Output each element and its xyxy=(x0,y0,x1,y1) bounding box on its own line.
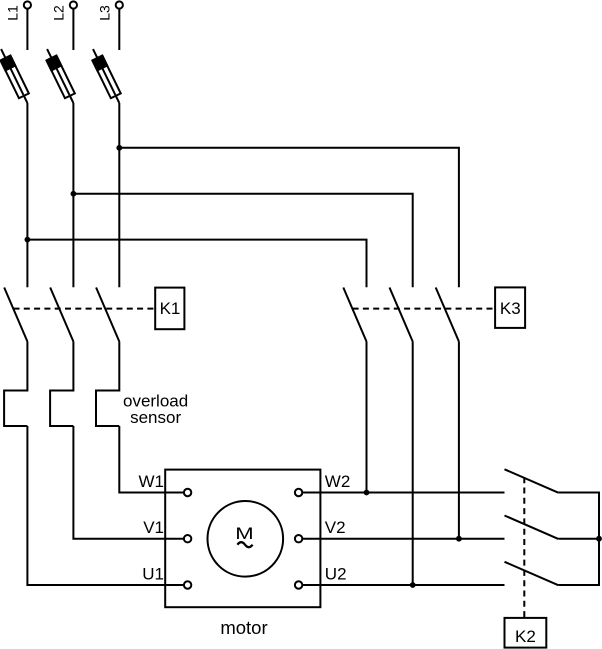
svg-text:K3: K3 xyxy=(500,299,521,318)
svg-text:V2: V2 xyxy=(325,518,346,537)
svg-text:K2: K2 xyxy=(515,627,536,646)
svg-text:K1: K1 xyxy=(160,299,181,318)
svg-text:U1: U1 xyxy=(142,565,164,584)
svg-text:sensor: sensor xyxy=(130,408,181,427)
svg-text:L2: L2 xyxy=(50,5,66,21)
svg-text:W1: W1 xyxy=(139,472,165,491)
svg-text:W2: W2 xyxy=(325,472,351,491)
svg-text:U2: U2 xyxy=(325,565,347,584)
svg-text:V1: V1 xyxy=(143,518,164,537)
svg-text:motor: motor xyxy=(220,617,267,638)
svg-text:L1: L1 xyxy=(4,5,20,21)
svg-text:M: M xyxy=(235,524,253,543)
svg-text:L3: L3 xyxy=(96,5,112,21)
